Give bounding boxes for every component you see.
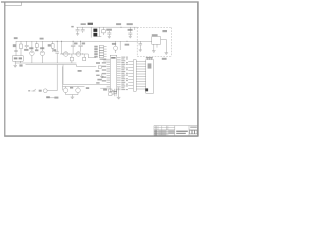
- ground DA2 right: [165, 53, 169, 55]
- label DD1: [111, 57, 115, 59]
- capacitor C5 series: [55, 41, 59, 63]
- wire step right: [88, 54, 96, 58]
- MCU left labels: [102, 59, 106, 82]
- title block: [154, 126, 198, 136]
- wire branch: [119, 41, 121, 50]
- capacitor C3: [14, 50, 18, 51]
- label WA1: [162, 30, 167, 32]
- node junction: [121, 27, 122, 28]
- label DD2: [148, 63, 152, 68]
- wire DA2 pins: [154, 44, 157, 50]
- wires connector to DD2: [136, 62, 146, 90]
- wire signal line: [60, 53, 88, 55]
- title block text: [154, 127, 197, 136]
- IC DA2: [152, 37, 161, 44]
- wire main rail: [16, 40, 152, 42]
- transistor VT4: [76, 52, 81, 57]
- wire step: [76, 65, 96, 67]
- diode VD2 dark: [145, 88, 148, 91]
- pin ticks DD2 top: [147, 58, 151, 60]
- wires MCU to connector: [128, 62, 133, 89]
- transistor VT5: [114, 41, 118, 53]
- switch SB1 row: [28, 65, 57, 93]
- capacitor C4: [25, 41, 29, 48]
- wire long route: [63, 65, 110, 85]
- label TV1: [88, 23, 93, 25]
- node dots signal line: [62, 53, 83, 56]
- wire stub: [134, 27, 136, 30]
- LED HL2: [76, 87, 81, 95]
- label VT1: [29, 47, 33, 49]
- wire to LED row: [62, 66, 64, 90]
- label C9: [82, 43, 85, 45]
- resistor R1: [20, 41, 23, 56]
- dashed module box A1: [137, 27, 171, 56]
- battery G1: [13, 56, 24, 63]
- LED HL1: [63, 87, 68, 95]
- resistor R8: [83, 54, 86, 61]
- resistor R5: [51, 41, 54, 52]
- connector XP1: [133, 60, 136, 91]
- node junction main: [127, 41, 128, 42]
- border frame right: [197, 1, 199, 136]
- wire LED top line: [63, 86, 85, 88]
- capacitor C1: [76, 27, 80, 35]
- capacitor C2: [81, 27, 85, 33]
- label HL: [70, 87, 73, 89]
- ground LED: [66, 95, 79, 99]
- IC DD2: [146, 60, 154, 93]
- label R5: [48, 44, 51, 46]
- wire amp branch: [61, 41, 63, 54]
- border frame top: [1, 1, 198, 3]
- label wire y72: [78, 70, 82, 72]
- wire left MCU area: [96, 62, 104, 80]
- label right HL2: [86, 87, 89, 89]
- crystal ZQ1: [103, 87, 120, 99]
- label R2: [35, 49, 38, 51]
- MCU left pins: [107, 59, 111, 88]
- label R1: [13, 44, 16, 47]
- transformer TV1: [91, 27, 101, 37]
- wire route 2: [100, 87, 106, 89]
- ground DA2 left: [152, 51, 156, 53]
- label SB1: [46, 96, 58, 98]
- ground: [13, 63, 17, 67]
- label VT5: [112, 43, 116, 45]
- resistor R7: [70, 54, 73, 63]
- label polarity: [19, 64, 22, 66]
- title block litera cells: [190, 130, 197, 134]
- label C5: [53, 49, 56, 51]
- node dots rail: [57, 41, 81, 42]
- top-left stamp box: [5, 2, 22, 6]
- wire stubs MCU left: [96, 59, 106, 84]
- resistor R2: [35, 41, 38, 50]
- label C6: [74, 43, 77, 45]
- label top DD2: [146, 57, 153, 59]
- capacitor C6: [71, 41, 75, 54]
- transistor VT2: [40, 41, 45, 63]
- label C1 C2: [81, 23, 86, 25]
- MCU right pins: [117, 57, 121, 89]
- transistor VT3: [63, 52, 68, 57]
- border frame left: [4, 2, 6, 137]
- capacitor C9: [78, 41, 82, 51]
- capacitor C8: [128, 27, 132, 38]
- label C4: [24, 49, 28, 51]
- capacitor C10 in module: [139, 41, 143, 51]
- resistor network R10-R14: [94, 46, 106, 58]
- label DA1: [127, 23, 133, 25]
- label right DD2: [162, 58, 167, 60]
- label R15: [125, 44, 130, 46]
- wire bottom rail: [15, 62, 76, 64]
- transistor VT1: [30, 41, 35, 63]
- label +5V: [116, 23, 121, 25]
- MCU pin labels right: [121, 57, 128, 91]
- wire lower line: [26, 64, 77, 66]
- label DA2: [152, 34, 158, 36]
- capacitor C7: [107, 31, 111, 38]
- label VT2: [40, 47, 44, 49]
- label C8: [128, 29, 133, 31]
- node input tick: [71, 26, 73, 28]
- label G1 node: [14, 37, 18, 39]
- diode VD1: [102, 27, 106, 35]
- border frame bottom: [4, 135, 198, 137]
- wire DA2 out: [161, 39, 167, 52]
- MCU DD1: [110, 55, 117, 91]
- wire upper AC rail: [77, 26, 138, 28]
- label C7: [106, 29, 112, 31]
- label +U: [40, 38, 44, 40]
- wire left branch: [15, 41, 17, 56]
